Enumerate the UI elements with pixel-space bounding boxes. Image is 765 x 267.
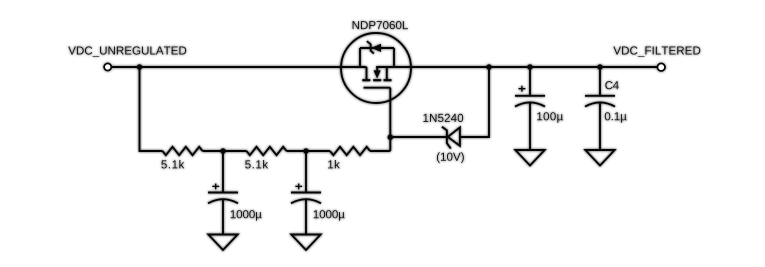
Q1 body-diode top line — [360, 47, 394, 49]
Q1 source post up — [393, 48, 395, 67]
node C3 junction — [527, 64, 533, 70]
wire C3 to ground — [529, 103, 531, 150]
capacitor C4 lead top — [599, 67, 601, 96]
diode D1 1N5240 anode wire — [390, 136, 446, 138]
node junction R1-R2 — [220, 148, 226, 154]
wire C1 to ground — [222, 199, 224, 234]
capacitor C2 1000u lead top — [305, 151, 307, 193]
label VDC_FILTERED — [613, 46, 700, 56]
capacitor C3 top plate — [515, 95, 545, 97]
label D1 voltage (10V) — [437, 152, 464, 163]
Q1 body-diode arrow — [371, 44, 381, 52]
capacitor C1 plus sign — [212, 184, 219, 190]
wire R1 to R2 — [203, 150, 247, 152]
wire R2 to R3 — [287, 150, 331, 152]
wire main top (drain side) — [112, 66, 367, 68]
node junction left — [137, 64, 143, 70]
capacitor C4 top plate — [585, 95, 615, 97]
capacitor C1 1000u lead top — [222, 151, 224, 193]
wire left vertical to resistor row — [140, 67, 163, 151]
node junction R2-R3 — [303, 148, 309, 154]
node C4 junction — [597, 64, 603, 70]
Q1 source channel bar — [384, 79, 392, 81]
Q1 drain post up — [359, 48, 361, 67]
label C4 value 0.1u — [605, 112, 627, 123]
Q1 drain channel bar — [362, 79, 370, 81]
capacitor C1 top plate — [208, 192, 238, 194]
wire main top (source side) — [376, 66, 657, 68]
capacitor C2 bottom plate — [291, 199, 321, 203]
resistor R2 5.1k — [247, 147, 287, 155]
label VDC_UNREGULATED — [68, 46, 186, 56]
ground below C2 — [291, 235, 320, 251]
capacitor C1 bottom plate — [208, 199, 238, 203]
node gate-zener junction — [388, 134, 394, 140]
terminal VDC_UNREGULATED — [104, 63, 111, 70]
label C4 designator — [605, 81, 619, 89]
ground below C3 — [515, 150, 544, 166]
capacitor C3 100u lead top — [529, 67, 531, 96]
transistor Q1 NDP7060L circle — [341, 33, 411, 103]
label D1 1N5240 — [423, 114, 463, 122]
diode D1 triangle — [448, 127, 460, 145]
Q1 body arrow head — [374, 70, 381, 78]
wire C2 to ground — [305, 199, 307, 234]
node zener-top junction — [486, 64, 492, 70]
Q1 body-diode cathode bar — [367, 41, 374, 53]
capacitor C2 top plate — [291, 192, 321, 194]
wire C4 to ground — [599, 103, 601, 150]
wire R3 to gate corner — [370, 150, 390, 152]
label C2 value 1000u — [314, 210, 345, 221]
label C3 value 100u — [537, 112, 563, 123]
Q1 body arrow shaft — [376, 67, 378, 72]
capacitor C3 plus sign — [519, 86, 526, 92]
diode D1 cathode bar (zener) — [442, 127, 451, 149]
capacitor C4 bottom plate — [585, 102, 615, 106]
capacitor C2 plus sign — [295, 184, 302, 190]
label R2 value 5.1k — [245, 160, 268, 169]
Q1 body channel bar — [373, 79, 381, 81]
label C1 value 1000u — [231, 210, 262, 221]
resistor R1 5.1k — [163, 147, 203, 155]
label R1 value 5.1k — [161, 160, 184, 169]
Q1 source drop — [386, 67, 388, 79]
label Q1 NDP7060L — [353, 21, 408, 29]
wire D1 to top line — [460, 67, 489, 137]
terminal VDC_FILTERED — [657, 63, 665, 71]
resistor R3 1k — [330, 147, 370, 155]
label R3 value 1k — [328, 160, 340, 168]
wire gate vertical — [389, 88, 391, 151]
ground below C1 — [208, 235, 237, 251]
capacitor C3 bottom plate — [515, 102, 545, 106]
Q1 drain drop — [366, 67, 368, 79]
ground below C4 — [585, 150, 614, 166]
Q1 gate line — [364, 87, 391, 89]
